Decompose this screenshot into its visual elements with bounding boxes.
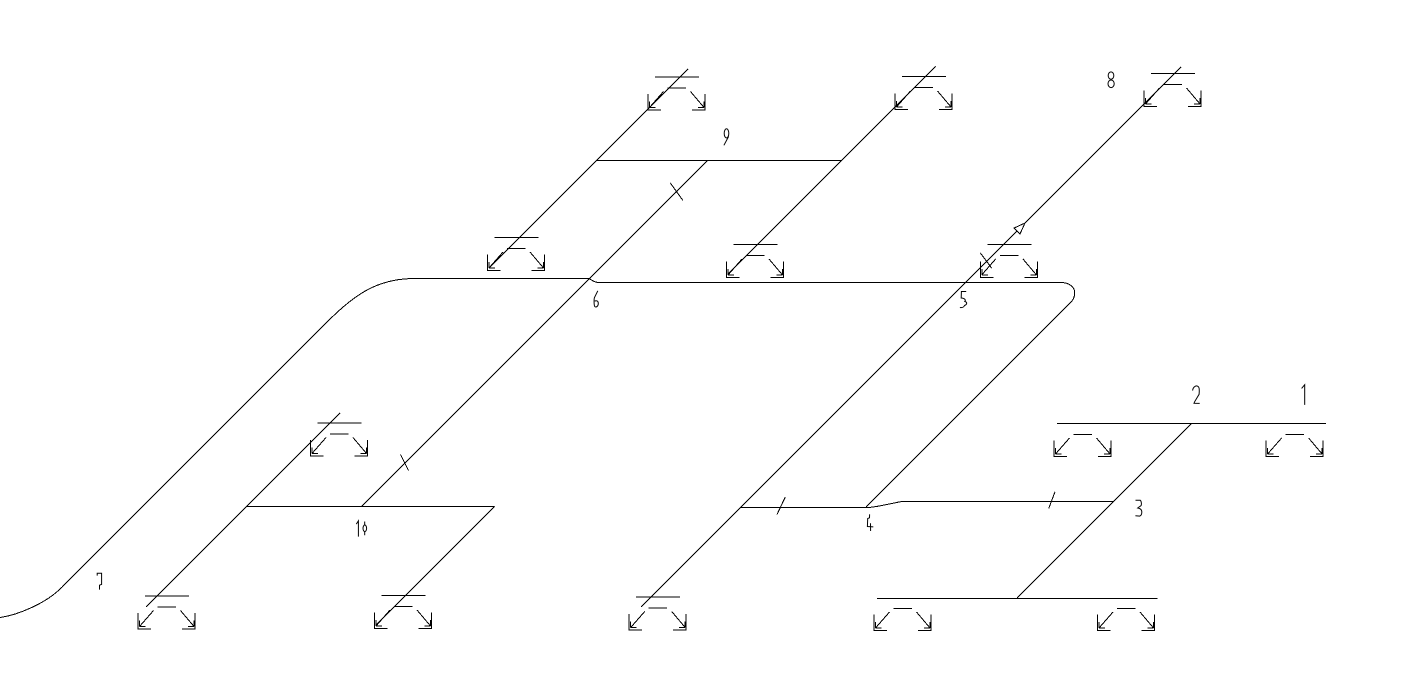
loading front SF bottom of D7 bbox=[138, 596, 195, 629]
loading front SH bottom of D4 bbox=[629, 597, 686, 630]
tick on track 4-3 bbox=[1049, 492, 1055, 509]
main line left curve bbox=[323, 279, 414, 327]
label 2 bbox=[1193, 386, 1200, 403]
label 4 bbox=[867, 514, 873, 531]
label 7 bbox=[97, 573, 101, 589]
loading front U4 under bottom track right bbox=[1098, 609, 1155, 631]
tracks 1 and 2 bbox=[1057, 423, 1326, 425]
bottom freight track bbox=[877, 598, 1158, 600]
track 7 diagonal approach bbox=[62, 326, 323, 587]
main line left segment to node 6 bbox=[414, 278, 589, 280]
loading front U3 under bottom track left bbox=[874, 609, 931, 631]
label 6 bbox=[594, 291, 598, 307]
label 10 bbox=[356, 521, 358, 537]
node 4 bend bbox=[869, 502, 902, 508]
node 6 jog bbox=[589, 279, 599, 283]
right end hook curve bbox=[1061, 283, 1075, 304]
label 1 bbox=[1302, 385, 1305, 405]
diagonal D4 long siding crossing node 5 bbox=[641, 67, 1181, 607]
loading front S4 end of D3 bbox=[727, 245, 784, 278]
label 8 bbox=[1108, 72, 1114, 79]
track node 4 to node 3 bbox=[902, 501, 1114, 503]
tick on D2 lower bbox=[401, 455, 409, 471]
diagonal D2 from track 9 through node 6 to track 10 bbox=[362, 161, 708, 507]
loading front U1 under track 2 bbox=[1054, 435, 1111, 457]
diagonal D1 through track 9 left end bbox=[489, 69, 688, 268]
label 3 bbox=[1135, 500, 1141, 516]
loading front SE top of D7 bbox=[311, 423, 368, 456]
track 9 bbox=[597, 160, 842, 162]
track J4 to node 4 bbox=[741, 507, 870, 509]
tick on D4 above node 5 bbox=[980, 253, 991, 268]
track 10 bbox=[247, 506, 495, 508]
label 5 bbox=[960, 292, 967, 308]
loading front S2 bottom of D1 bbox=[488, 238, 545, 271]
diagonal D5 hook to node 4 bbox=[866, 303, 1070, 507]
diagonal D7 through track 10 left end bbox=[146, 413, 340, 607]
tick on D2 upper bbox=[670, 183, 683, 201]
loading front SA top of D1 bbox=[648, 77, 705, 110]
tick on track J4-4 bbox=[777, 497, 785, 515]
diagonal D8 track 10 right end to symbol bbox=[376, 507, 495, 626]
diagonal D6 bottom track to track 2 bbox=[1017, 424, 1192, 599]
label 9 bbox=[724, 129, 729, 138]
loading front U2 under track 1 bbox=[1266, 435, 1323, 457]
loading front SB top of D3 bbox=[895, 77, 952, 110]
main line right segment node 6 to hook bbox=[599, 282, 1061, 284]
diagonal D3 from main line symbol through track 9 right end bbox=[728, 67, 936, 275]
open arrow on D4 bbox=[1014, 223, 1025, 234]
loading front SD on D4 near node 5 bbox=[980, 244, 1037, 277]
track 7 left end curve bbox=[0, 587, 62, 618]
loading front SC top of D4 bbox=[1144, 74, 1201, 107]
loading front SG bottom of D8 bbox=[375, 596, 432, 629]
